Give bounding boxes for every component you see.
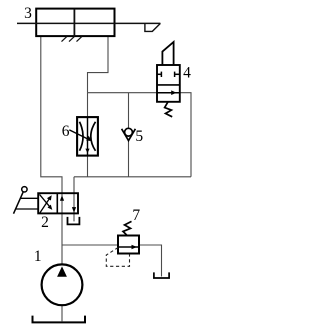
valve 4 body (two stacked squares): [157, 65, 180, 102]
svg-text:1: 1: [34, 248, 42, 265]
svg-text:6: 6: [62, 123, 70, 140]
throttle valve 6 left arc: [80, 122, 84, 151]
load symbol at rod end: [145, 23, 161, 31]
cylinder 3 body: [36, 9, 114, 36]
valve 2 lever arm: [14, 192, 24, 214]
relief valve 7 pilot line (dashed): [106, 248, 129, 267]
check valve 5 (ball): [125, 128, 133, 136]
cylinder 3 piston: [73, 9, 75, 36]
throttle valve 6 body: [77, 117, 98, 156]
wire: cylinder rod-side port down-left to throttle stem: [88, 37, 109, 93]
relief valve 7 flow arrow: [118, 246, 139, 248]
main tank under pump: [33, 316, 86, 323]
valve 2 body (two squares): [38, 193, 78, 213]
wire: check valve branch lower: [128, 140, 130, 176]
pump 1 circle: [42, 264, 83, 305]
check valve 5 seat: [122, 129, 136, 141]
valve 4 cam/flag actuator: [162, 42, 173, 65]
valve 2 crossed arrows (left square): [40, 199, 50, 214]
throttle valve 6 flow arrowhead: [85, 149, 89, 154]
wire: check valve branch upper: [128, 93, 130, 129]
svg-text:4: 4: [183, 65, 191, 82]
wire: pump outlet junction to relief valve 7: [62, 244, 118, 246]
pump 1 triangle: [57, 266, 67, 276]
tank under valve 2: [68, 217, 80, 225]
wire: node at y93 going right to valve 4: [88, 92, 158, 94]
valve 2 lever pivot: [22, 187, 27, 192]
wire: cylinder left port down to valve 2 port A: [41, 37, 62, 265]
wire: pump suction line: [61, 305, 63, 321]
wire: throttle stem vertical: [87, 93, 89, 177]
wire: relief valve 7 outlet to tank: [139, 245, 162, 277]
svg-text:7: 7: [132, 207, 140, 224]
svg-text:2: 2: [41, 214, 49, 231]
throttle valve 6 adjustment arrow: [69, 130, 88, 140]
wire: net B horizontal at y177: [74, 176, 191, 178]
throttle valve 6 right arc: [91, 122, 96, 151]
tank at relief valve outlet: [154, 272, 169, 278]
valve 4 flow arrow (bottom square): [157, 92, 180, 94]
svg-text:3: 3: [24, 5, 32, 22]
valve 2 up arrow (right square): [60, 195, 64, 201]
ground hatching under cylinder: [62, 37, 82, 42]
valve 2 down arrow (right square): [72, 207, 76, 213]
svg-text:5: 5: [135, 128, 143, 145]
throttle valve 6 flow line: [87, 117, 89, 156]
valve 2 lever links: [20, 197, 38, 199]
relief valve 7 spring: [123, 221, 132, 235]
valve 4 spring: [165, 102, 173, 117]
valve 4 blocked ports (top square): [157, 72, 180, 77]
relief valve 7 body: [118, 236, 139, 254]
wire: valve 4 outlet right then down: [180, 93, 191, 177]
wire: valve 2 port B up / down through valve to tank: [73, 177, 75, 222]
cylinder 3 rod line / label leader: [17, 22, 160, 24]
